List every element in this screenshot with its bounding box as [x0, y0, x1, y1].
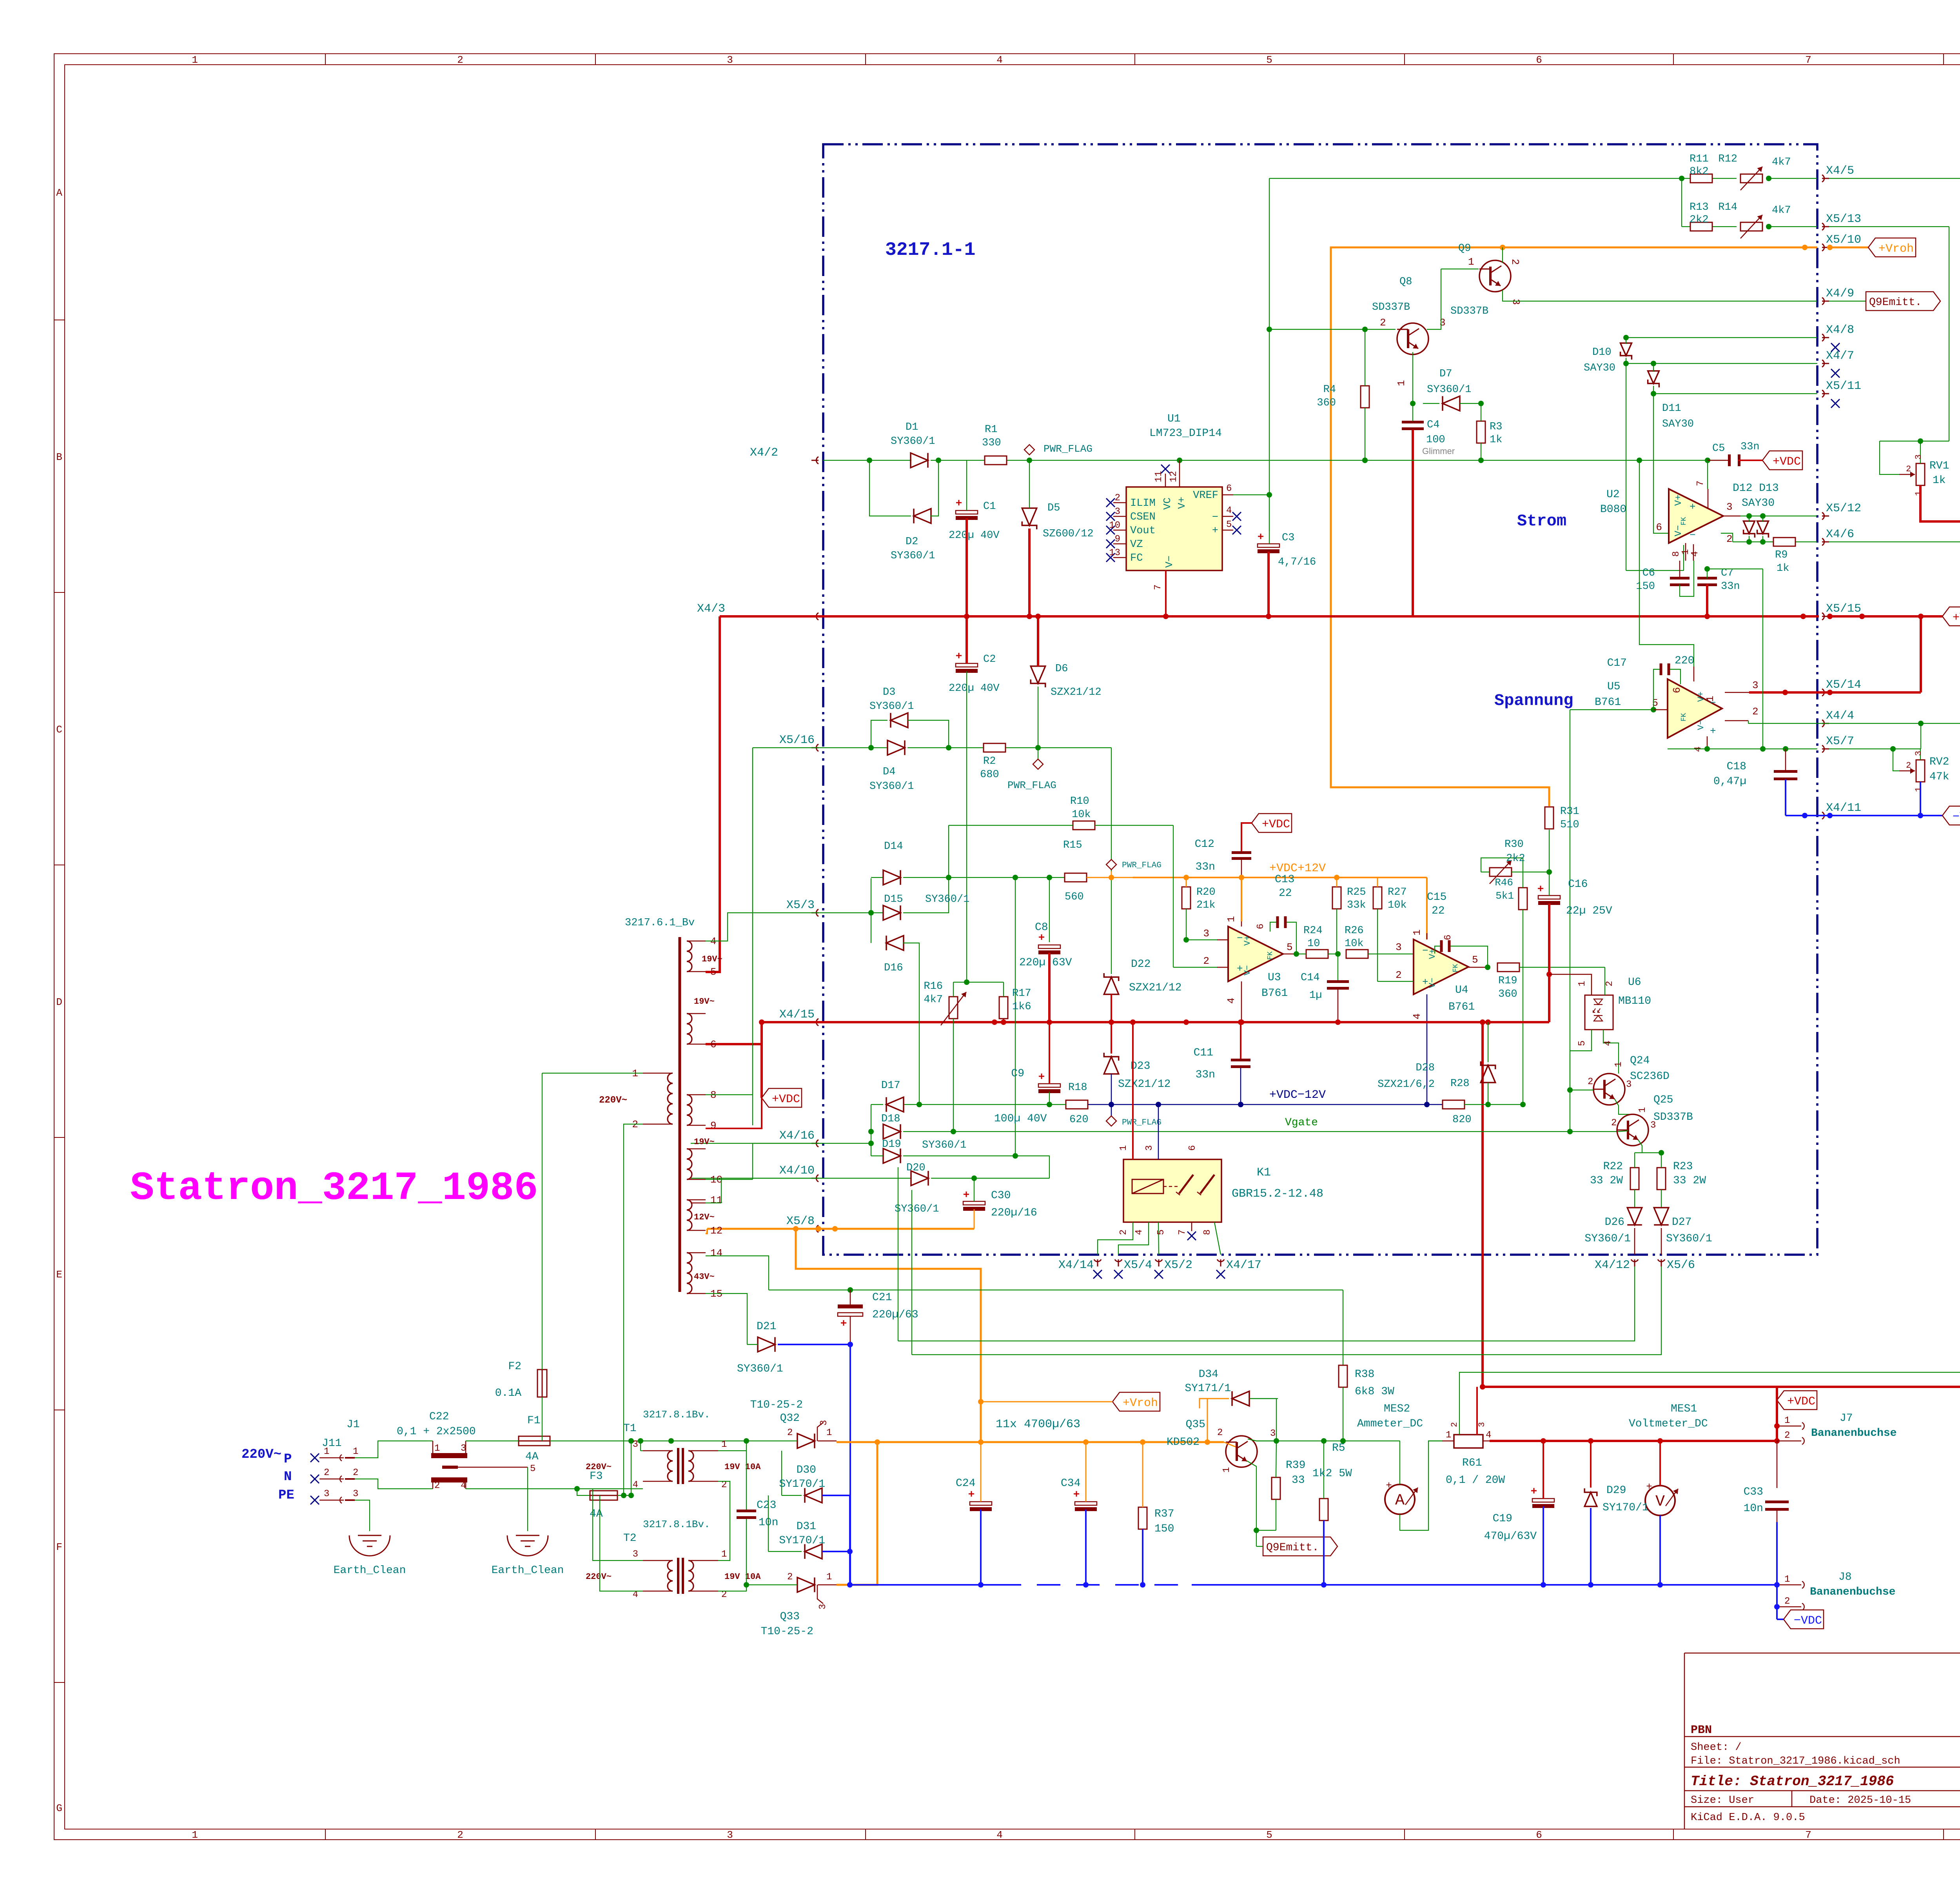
- svg-text:SZX21/6,2: SZX21/6,2: [1377, 1079, 1435, 1090]
- svg-text:D18: D18: [881, 1113, 900, 1125]
- svg-text:V+: V+: [1673, 494, 1684, 506]
- sheet pin X4/15: [816, 1019, 818, 1026]
- svg-text:Vgate: Vgate: [1285, 1117, 1318, 1129]
- hier label Q9Emitt right side: [1829, 301, 1866, 302]
- svg-text:SY360/1: SY360/1: [869, 701, 914, 712]
- U2 pins 1 4 8 stubs: [1685, 543, 1686, 561]
- svg-text:Date: 2025-10-15: Date: 2025-10-15: [1809, 1795, 1911, 1806]
- svg-text:8k2: 8k2: [1690, 166, 1709, 178]
- svg-text:5: 5: [1156, 1230, 1167, 1235]
- wire X4/7 row: [1626, 363, 1817, 364]
- svg-text:Glimmer: Glimmer: [1422, 446, 1455, 456]
- hier label Q9Emitt bottom: [1263, 1537, 1338, 1556]
- orange junction: [1500, 245, 1505, 250]
- svg-text:D27: D27: [1672, 1216, 1691, 1228]
- svg-text:5: 5: [1652, 697, 1658, 709]
- resistor R1: [985, 456, 1007, 465]
- svg-text:6: 6: [1187, 1145, 1198, 1151]
- svg-text:3: 3: [1396, 941, 1402, 953]
- svg-text:V+: V+: [1428, 949, 1437, 959]
- fuse F1: [519, 1436, 550, 1446]
- svg-text:F: F: [56, 1541, 62, 1553]
- svg-text:X4/15: X4/15: [779, 1008, 815, 1021]
- svg-text:SD337B: SD337B: [1372, 302, 1410, 313]
- svg-text:3: 3: [727, 54, 733, 66]
- wire T pin12 X5/8 orange: [706, 1229, 707, 1234]
- wire Vgate row: [953, 1131, 1618, 1132]
- wire bus to X4/15 pin: [762, 1021, 823, 1023]
- svg-text:3: 3: [1115, 507, 1120, 517]
- svg-text:V: V: [1655, 1493, 1665, 1511]
- svg-text:SY360/1: SY360/1: [925, 894, 969, 905]
- sheet pin X4/3: [816, 613, 818, 620]
- svg-text:220µ 40V: 220µ 40V: [949, 530, 1000, 541]
- potentiometer R12: [1740, 174, 1762, 183]
- sheet pin X4/12: [1631, 1259, 1638, 1262]
- svg-text:R28: R28: [1450, 1078, 1470, 1090]
- svg-text:C22: C22: [429, 1411, 449, 1423]
- svg-text:3: 3: [1510, 299, 1522, 305]
- junction: [1704, 566, 1710, 572]
- svg-text:D26: D26: [1605, 1216, 1624, 1228]
- svg-text:SY360/1: SY360/1: [869, 781, 914, 792]
- svg-text:5: 5: [1266, 54, 1272, 66]
- wire X5/16 to transformer pin8: [753, 747, 823, 748]
- junction: [1478, 458, 1484, 463]
- J1 pin 3: [310, 1496, 319, 1504]
- svg-text:33n: 33n: [1721, 581, 1740, 592]
- diode D2 bypass: [869, 460, 911, 516]
- svg-text:SY360/1: SY360/1: [1427, 384, 1471, 396]
- svg-text:0,47µ: 0,47µ: [1713, 776, 1746, 788]
- svg-text:1: 1: [826, 1428, 832, 1438]
- U1 pin 5: [1222, 530, 1233, 531]
- hier label +VDC mid: [1252, 814, 1292, 832]
- wire C7 top across: [1707, 569, 1763, 569]
- svg-text:FK: FK: [1680, 713, 1688, 721]
- junction: [744, 1582, 749, 1588]
- svg-text:D7: D7: [1439, 368, 1452, 380]
- junction: [1183, 937, 1189, 943]
- svg-text:1k: 1k: [1933, 474, 1946, 487]
- svg-text:B761: B761: [1261, 987, 1288, 999]
- svg-text:3: 3: [633, 1549, 638, 1560]
- svg-text:+VDC: +VDC: [1953, 611, 1960, 625]
- svg-text:X5/4: X5/4: [1124, 1259, 1152, 1272]
- svg-text:19V 10A: 19V 10A: [724, 1462, 761, 1472]
- svg-text:Q9Emitt.: Q9Emitt.: [1869, 296, 1922, 309]
- wire voltmeter bottom: [1659, 1515, 1661, 1585]
- transistor Q35: [1226, 1436, 1257, 1467]
- svg-text:3: 3: [1726, 501, 1733, 513]
- sheet pin X4/16: [816, 1140, 818, 1147]
- U2 pin7: [1708, 489, 1709, 508]
- svg-text:+VDC: +VDC: [772, 1093, 800, 1106]
- U3 pin2 from long net: [1173, 967, 1217, 968]
- svg-text:A: A: [1395, 1492, 1405, 1510]
- svg-text:PWR_FLAG: PWR_FLAG: [1044, 443, 1093, 455]
- X marks unconnected pins X4/8 X4/7 X5/11: [1831, 343, 1840, 352]
- transistor Q24: [1593, 1074, 1625, 1105]
- svg-text:−VDC: −VDC: [1953, 810, 1960, 824]
- wire left bridge vertical: [871, 878, 871, 943]
- svg-text:6k8 3W: 6k8 3W: [1355, 1386, 1394, 1398]
- K1 pin7 nc: [1191, 1222, 1192, 1231]
- svg-text:C: C: [56, 724, 62, 736]
- wire voltmeter top: [1659, 1441, 1661, 1486]
- T secondary 4-5: [687, 941, 692, 972]
- wire X4/10 D20 row: [691, 1178, 911, 1179]
- svg-text:3: 3: [1914, 751, 1924, 756]
- junction: [1802, 245, 1808, 250]
- svg-text:1: 1: [1613, 1062, 1624, 1067]
- svg-text:2: 2: [434, 1481, 440, 1491]
- svg-text:X5/6: X5/6: [1667, 1259, 1695, 1272]
- hier label +VDC transformer: [762, 1088, 802, 1107]
- capacitor C23: [737, 1510, 756, 1512]
- svg-text:3217.1-1: 3217.1-1: [885, 240, 975, 261]
- svg-text:C1: C1: [983, 501, 996, 512]
- svg-text:10n: 10n: [1744, 1502, 1763, 1515]
- junction: [1238, 1019, 1243, 1025]
- svg-text:F2: F2: [508, 1361, 521, 1373]
- wire output plus rail: [1490, 1440, 1777, 1442]
- svg-text:2: 2: [787, 1572, 793, 1582]
- svg-text:SY360/1: SY360/1: [1584, 1233, 1631, 1245]
- svg-text:5: 5: [1226, 520, 1232, 530]
- resistor R15: [1065, 873, 1087, 882]
- svg-text:+: +: [1690, 501, 1696, 513]
- svg-text:R26: R26: [1345, 925, 1364, 937]
- wire C22 pin5 to earth: [527, 1467, 528, 1531]
- power flag PWR_FLAG: [1038, 748, 1038, 759]
- svg-text:SY360/1: SY360/1: [895, 1203, 939, 1215]
- svg-text:X4/17: X4/17: [1226, 1259, 1261, 1272]
- bus X4/15 +VDC raw: [762, 1021, 1549, 1023]
- svg-text:R30: R30: [1504, 839, 1524, 850]
- power flag PWR_FLAG small: [1111, 871, 1112, 877]
- sheet pin X5/16: [816, 744, 818, 751]
- capacitor C17 feedback: [1653, 669, 1660, 710]
- capacitor C18: [1774, 770, 1797, 773]
- capacitor C4: [1402, 421, 1424, 423]
- U3 pin5 out: [1283, 954, 1296, 955]
- U2 pin3 out: [1723, 516, 1740, 517]
- svg-text:X4/6: X4/6: [1826, 528, 1854, 541]
- svg-text:D6: D6: [1055, 663, 1068, 675]
- svg-text:C18: C18: [1727, 761, 1746, 773]
- svg-text:220µ 40V: 220µ 40V: [949, 683, 1000, 694]
- connector J8: [1777, 1584, 1801, 1586]
- svg-text:SY170/1: SY170/1: [779, 1478, 825, 1490]
- wire X4/8 row: [1626, 337, 1817, 338]
- wire R39 bottom join: [1256, 1530, 1276, 1531]
- svg-text:SY360/1: SY360/1: [891, 436, 935, 447]
- svg-text:+: +: [1646, 1481, 1652, 1493]
- wire D34 cathode down: [1249, 1399, 1276, 1441]
- svg-text:3: 3: [819, 1420, 829, 1426]
- svg-text:X4/3: X4/3: [697, 602, 725, 616]
- svg-text:B: B: [56, 451, 62, 463]
- svg-text:D21: D21: [757, 1321, 776, 1333]
- svg-text:4: 4: [996, 1829, 1003, 1841]
- junction: [1335, 951, 1341, 957]
- junction navy: [1109, 1102, 1114, 1107]
- hier label +VDC output: [1776, 1387, 1778, 1400]
- capacitor C1: [956, 510, 978, 514]
- svg-text:R13: R13: [1690, 202, 1709, 213]
- svg-text:4: 4: [1486, 1430, 1491, 1441]
- svg-text:−: −: [1690, 529, 1696, 541]
- svg-text:33: 33: [1292, 1474, 1305, 1486]
- svg-text:14: 14: [710, 1247, 722, 1259]
- wire Q35 collector: [1248, 1439, 1276, 1441]
- resistor R61 shunt: [1454, 1435, 1483, 1448]
- svg-text:1k2 5W: 1k2 5W: [1312, 1468, 1352, 1480]
- svg-text:+Vroh: +Vroh: [1878, 242, 1914, 256]
- wire X5/11 to U2 pin6: [1653, 394, 1669, 533]
- svg-text:B080: B080: [1600, 503, 1626, 516]
- svg-text:FC: FC: [1130, 552, 1143, 564]
- T secondary 6: [687, 1014, 692, 1044]
- wire mid riser 2590: [1015, 877, 1016, 1156]
- svg-text:R31: R31: [1560, 806, 1579, 818]
- svg-text:U4: U4: [1455, 984, 1468, 996]
- svg-text:U1: U1: [1167, 413, 1181, 425]
- svg-text:SY360/1: SY360/1: [891, 550, 935, 562]
- svg-text:SY170/1: SY170/1: [779, 1535, 825, 1547]
- svg-text:22: 22: [1279, 887, 1292, 899]
- wire +VDC-12V navy row: [1111, 1104, 1443, 1105]
- svg-text:Bananenbuchse: Bananenbuchse: [1810, 1586, 1895, 1598]
- wire X4/11 row blue: [1786, 815, 1942, 816]
- svg-text:2: 2: [1906, 464, 1911, 474]
- U4 pin1 stub: [1426, 933, 1428, 939]
- svg-text:4,7/16: 4,7/16: [1278, 556, 1316, 568]
- svg-text:SZX21/12: SZX21/12: [1129, 982, 1181, 994]
- svg-text:B761: B761: [1448, 1001, 1475, 1013]
- wire C4 to bus thick: [1412, 430, 1414, 616]
- J1 pin 1: [310, 1453, 319, 1462]
- svg-text:220: 220: [1675, 655, 1694, 667]
- svg-text:U3: U3: [1268, 972, 1281, 984]
- svg-text:X4/8: X4/8: [1826, 323, 1854, 337]
- svg-text:4k7: 4k7: [1772, 156, 1791, 168]
- svg-text:1: 1: [192, 1829, 198, 1841]
- sheet pin X5/2: [1155, 1259, 1162, 1262]
- bus X4/3 +V raw: [720, 615, 1819, 618]
- svg-text:1k6: 1k6: [1012, 1001, 1031, 1013]
- wire X5/13 outside: [1829, 226, 1949, 227]
- wire R38 drop: [1343, 1290, 1343, 1365]
- wire R16 R17 top link: [953, 982, 1004, 983]
- diode D15: [883, 905, 900, 920]
- wire J1 N to C22: [355, 1479, 427, 1489]
- svg-text:6: 6: [1443, 935, 1454, 940]
- svg-text:−VDC: −VDC: [1794, 1614, 1822, 1628]
- svg-text:SY171/1: SY171/1: [1185, 1383, 1231, 1395]
- resistor R23: [1657, 1168, 1666, 1190]
- svg-text:Bananenbuchse: Bananenbuchse: [1811, 1427, 1896, 1439]
- wire Q32 gate: [823, 1422, 981, 1423]
- svg-text:RV1: RV1: [1929, 460, 1949, 472]
- svg-text:2k2: 2k2: [1690, 214, 1709, 226]
- svg-text:6: 6: [1671, 687, 1683, 693]
- wire R22 R23 feed: [1635, 1152, 1661, 1153]
- svg-text:1: 1: [721, 1439, 727, 1450]
- wire D34 right: [1278, 1399, 1278, 1419]
- U3 pin4 stub: [1241, 981, 1242, 1022]
- svg-text:CSEN: CSEN: [1130, 511, 1156, 523]
- svg-text:Strom: Strom: [1517, 512, 1566, 530]
- svg-text:−: −: [1710, 697, 1716, 709]
- wire R13 row: [1681, 178, 1682, 227]
- svg-text:9: 9: [1115, 534, 1120, 545]
- wire D17 anode down: [871, 1105, 871, 1156]
- wire transformer pin6 to bus: [706, 1022, 762, 1044]
- svg-text:SY360/1: SY360/1: [922, 1139, 966, 1151]
- svg-text:0,1 / 20W: 0,1 / 20W: [1446, 1474, 1505, 1486]
- svg-text:1: 1: [1468, 256, 1474, 268]
- svg-text:19V~: 19V~: [702, 954, 722, 964]
- svg-text:3: 3: [1626, 1079, 1632, 1090]
- svg-text:19V~: 19V~: [694, 1137, 715, 1147]
- svg-text:8: 8: [1671, 551, 1682, 557]
- svg-text:33n: 33n: [1196, 1069, 1215, 1081]
- svg-text:1: 1: [1914, 787, 1924, 792]
- K1 pin4: [1118, 1222, 1149, 1255]
- svg-text:220V~: 220V~: [586, 1462, 612, 1472]
- resistor R3: [1477, 421, 1485, 443]
- svg-text:SY170/1: SY170/1: [1602, 1502, 1649, 1514]
- diode D20: [911, 1171, 928, 1185]
- resistor R25: [1332, 887, 1341, 909]
- opamp U3 B761: [1228, 927, 1283, 981]
- svg-text:Q25: Q25: [1653, 1094, 1673, 1106]
- svg-text:SD337B: SD337B: [1653, 1111, 1693, 1123]
- resistor R13: [1690, 222, 1712, 231]
- wire +Vroh link: [981, 1269, 1112, 1402]
- svg-text:3: 3: [1477, 1422, 1487, 1427]
- svg-text:7: 7: [1805, 1829, 1811, 1841]
- svg-text:10k: 10k: [1072, 809, 1091, 821]
- wire R30 R31 node: [1546, 869, 1552, 875]
- potentiometer R30: [1490, 868, 1512, 876]
- wire Q9 collector: [1502, 247, 1503, 263]
- svg-text:360: 360: [1498, 988, 1517, 1000]
- svg-text:R4: R4: [1323, 384, 1336, 396]
- diode D3 bypass: [871, 720, 887, 748]
- svg-text:+Vroh: +Vroh: [1123, 1397, 1158, 1410]
- svg-text:X5/3: X5/3: [786, 899, 815, 912]
- svg-text:+: +: [1237, 963, 1243, 975]
- svg-text:10: 10: [1109, 520, 1120, 531]
- wire RV1 to +VDC: [1920, 485, 1960, 521]
- svg-text:150: 150: [1154, 1523, 1174, 1535]
- svg-text:220µ/16: 220µ/16: [991, 1207, 1037, 1219]
- sheet pin X5/14: [1822, 689, 1824, 696]
- wire D28 right riser: [1488, 1104, 1523, 1105]
- relay K1 GBR15.2-12.48: [1123, 1159, 1221, 1222]
- svg-text:R20: R20: [1196, 887, 1216, 898]
- transformer T1: [677, 1448, 679, 1484]
- svg-text:R24: R24: [1303, 925, 1323, 937]
- svg-text:X4/12: X4/12: [1595, 1259, 1630, 1272]
- svg-text:7: 7: [1153, 585, 1163, 590]
- svg-text:X5/12: X5/12: [1826, 502, 1861, 515]
- svg-text:R27: R27: [1388, 887, 1407, 898]
- wire +VDC label branch: [760, 1022, 763, 1098]
- svg-text:C11: C11: [1194, 1047, 1213, 1059]
- svg-text:−: −: [1212, 512, 1218, 523]
- svg-text:4k7: 4k7: [1772, 205, 1791, 216]
- capacitor C12: [1232, 851, 1251, 854]
- wire X5/11 row: [1653, 393, 1817, 394]
- U3 pin1 stub: [1241, 921, 1242, 927]
- svg-text:220V~: 220V~: [241, 1447, 281, 1462]
- svg-text:D3: D3: [883, 687, 895, 698]
- svg-text:D28: D28: [1416, 1062, 1435, 1074]
- svg-text:5k1: 5k1: [1495, 890, 1514, 902]
- svg-text:4: 4: [461, 1481, 466, 1491]
- svg-text:C24: C24: [956, 1477, 975, 1490]
- svg-text:PE: PE: [278, 1488, 294, 1503]
- svg-text:19V 10A: 19V 10A: [724, 1572, 761, 1582]
- svg-text:11x 4700µ/63: 11x 4700µ/63: [996, 1418, 1080, 1431]
- svg-text:R9: R9: [1775, 549, 1788, 561]
- diode D10: [1621, 343, 1632, 360]
- ground Earth_Clean 2: [507, 1535, 548, 1556]
- svg-text:220µ/63: 220µ/63: [872, 1309, 918, 1321]
- svg-text:3: 3: [1650, 1120, 1656, 1131]
- svg-text:V+: V+: [1696, 692, 1706, 702]
- svg-text:R3: R3: [1490, 421, 1502, 433]
- svg-text:FK: FK: [1452, 964, 1460, 972]
- resistor R24: [1306, 950, 1328, 958]
- transformer T2: [677, 1558, 679, 1594]
- svg-text:G: G: [56, 1802, 62, 1814]
- svg-text:2: 2: [1726, 533, 1733, 545]
- zener D22: [1104, 973, 1118, 994]
- sheet pin X4/6: [1822, 538, 1824, 545]
- svg-text:D19: D19: [882, 1139, 901, 1150]
- wire D30 D31 blue riser: [849, 1495, 851, 1585]
- svg-text:11: 11: [1154, 471, 1164, 482]
- thyristor Q33: [797, 1577, 815, 1592]
- svg-text:2: 2: [1784, 1596, 1790, 1607]
- svg-text:3: 3: [1144, 1145, 1155, 1151]
- hier label +Vroh mid: [1112, 1392, 1160, 1411]
- wire X5/16 row: [823, 747, 888, 748]
- wire Q33 out orange riser: [837, 1442, 877, 1585]
- svg-text:P: P: [284, 1452, 292, 1467]
- U5 pin1 stub: [1693, 667, 1695, 681]
- svg-text:5: 5: [1266, 1829, 1272, 1841]
- transistor Q9: [1479, 260, 1511, 292]
- svg-text:X4/10: X4/10: [779, 1164, 815, 1177]
- svg-text:1: 1: [324, 1446, 329, 1457]
- svg-text:2: 2: [1380, 317, 1386, 329]
- svg-text:FK: FK: [1267, 951, 1274, 960]
- capacitor C7: [1697, 577, 1717, 580]
- U1 pin 12 V+: [1179, 460, 1180, 487]
- svg-text:47k: 47k: [1929, 771, 1949, 783]
- svg-text:PWR_FLAG: PWR_FLAG: [1122, 1118, 1161, 1127]
- svg-text:6: 6: [1226, 483, 1232, 494]
- svg-text:D20: D20: [906, 1162, 926, 1174]
- wire C2 top to bus: [965, 616, 968, 663]
- svg-text:4: 4: [1225, 997, 1237, 1004]
